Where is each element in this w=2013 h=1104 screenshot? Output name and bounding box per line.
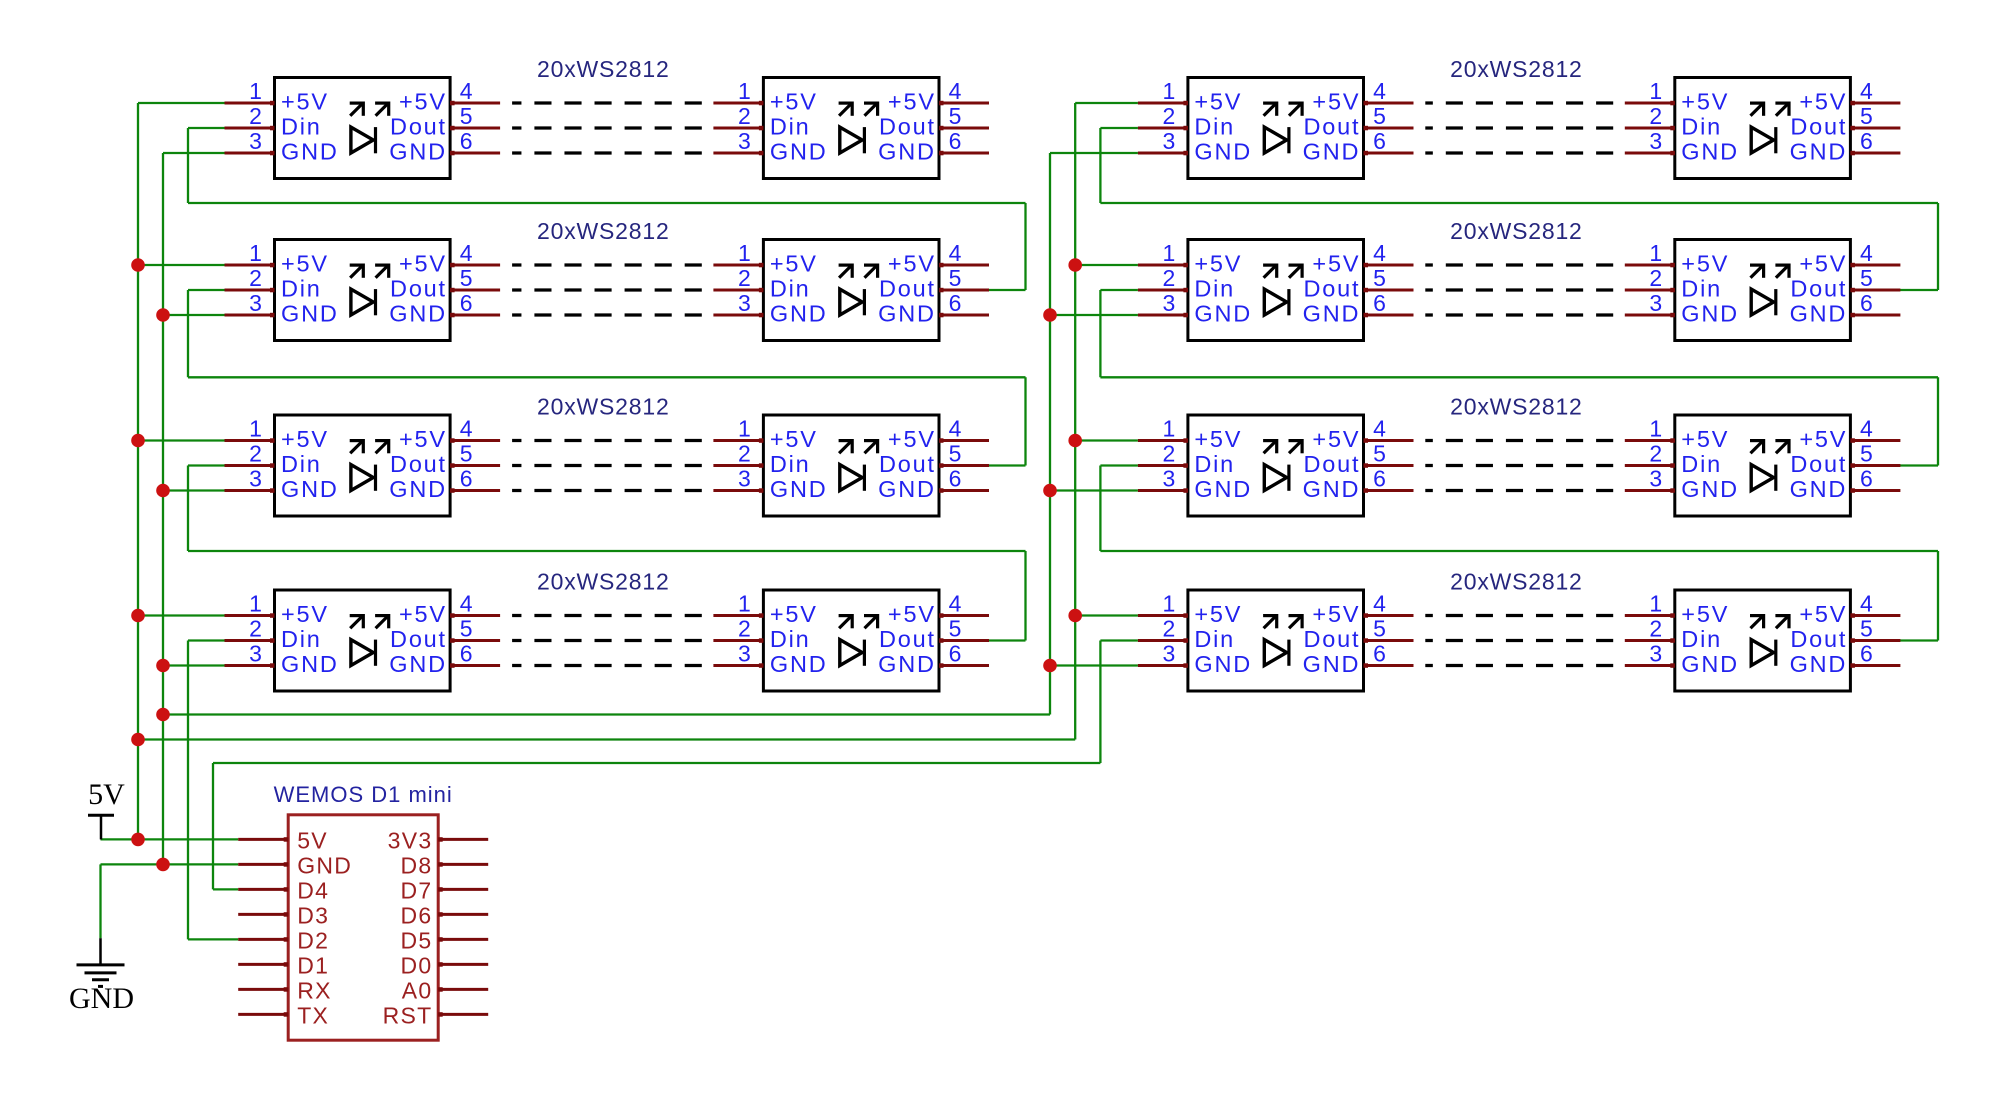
wire +5V feed to left row1 pin1: [138, 102, 225, 104]
svg-text:+5V: +5V: [1312, 426, 1360, 452]
svg-text:3: 3: [1163, 641, 1176, 667]
wire +5V feed to right row2 pin1: [1075, 264, 1138, 266]
svg-text:3: 3: [738, 466, 751, 492]
svg-text:4: 4: [1860, 240, 1873, 266]
LED module L1A diode symbol: [350, 102, 390, 154]
svg-text:Din: Din: [1194, 276, 1235, 302]
svg-text:GND: GND: [1681, 651, 1739, 677]
svg-text:5: 5: [1373, 441, 1386, 467]
LED module R2A pin numbers 1-3: [1163, 240, 1176, 316]
LED module L3B diode symbol: [839, 439, 879, 491]
LED module R3B pins 1-3 stubs: [1625, 438, 1675, 493]
WEMOS right pin stubs: [438, 837, 488, 1017]
svg-text:GND: GND: [770, 139, 828, 165]
wire Din feed to right row3 pin2: [1100, 464, 1138, 466]
LED module R2A pin numbers 4-6: [1373, 240, 1386, 316]
wire GND feed to left row4 pin3: [163, 664, 225, 666]
LED module R1B pins 1-3 stubs: [1625, 101, 1675, 156]
wire right S-link horizontal row1: [1100, 202, 1938, 204]
dashed LED-strip continuation right row1: [1425, 103, 1613, 153]
svg-text:3: 3: [1163, 128, 1176, 154]
svg-text:6: 6: [1860, 641, 1873, 667]
svg-text:4: 4: [949, 416, 962, 442]
LED module R3A pin numbers 4-6: [1373, 416, 1386, 492]
LED module R2B pins 1-3 stubs: [1625, 263, 1675, 318]
LED module L2A pins 4-6 stubs: [450, 263, 500, 318]
LED module L3A diode symbol: [350, 439, 390, 491]
svg-text:5: 5: [1860, 616, 1873, 642]
svg-text:GND: GND: [878, 139, 936, 165]
svg-text:GND: GND: [1790, 651, 1848, 677]
svg-text:5: 5: [460, 265, 473, 291]
svg-text:Din: Din: [770, 276, 811, 302]
svg-text:4: 4: [1373, 240, 1386, 266]
LED module R4A pin numbers 4-6: [1373, 591, 1386, 667]
LED module R2A pins 4-6 stubs: [1364, 263, 1414, 318]
LED module R4B pin numbers 4-6: [1860, 591, 1873, 667]
svg-text:+5V: +5V: [281, 426, 329, 452]
LED module R1A pins 4-6 stubs: [1364, 101, 1414, 156]
svg-text:GND: GND: [1303, 651, 1361, 677]
LED module L4B body: [763, 590, 939, 691]
LED module L1A pin numbers 1-3: [249, 78, 262, 154]
svg-text:5: 5: [949, 616, 962, 642]
wire left S-link horizontal row1: [188, 202, 1026, 204]
svg-text:A0: A0: [402, 977, 433, 1003]
LED module L3A pins 4-6 stubs: [450, 438, 500, 493]
LED module R1B pins 4-6 stubs: [1850, 101, 1900, 156]
WEMOS left pin names: [297, 827, 352, 1028]
LED module L3B pin numbers 4-6: [949, 416, 962, 492]
LED module R4B pin numbers 1-3: [1649, 591, 1662, 667]
wire GND feed to left row1 pin3: [163, 152, 225, 154]
svg-text:Dout: Dout: [1303, 276, 1360, 302]
svg-text:3V3: 3V3: [388, 827, 433, 853]
svg-text:1: 1: [249, 78, 262, 104]
svg-text:+5V: +5V: [770, 89, 818, 115]
wire left S-link vertical to row2 Dout: [1024, 203, 1026, 290]
wire right row1 Din vertical: [1099, 128, 1101, 203]
svg-text:1: 1: [249, 240, 262, 266]
LED module R3B pins 4-6 stubs: [1850, 438, 1900, 493]
svg-text:+5V: +5V: [1194, 426, 1242, 452]
LED module R3B diode symbol: [1750, 439, 1790, 491]
LED module L2A diode symbol: [350, 264, 390, 316]
LED module R1A pins 1-3 stubs: [1138, 101, 1188, 156]
svg-text:GND: GND: [770, 476, 828, 502]
svg-text:20xWS2812: 20xWS2812: [1450, 394, 1583, 420]
svg-text:Din: Din: [281, 276, 322, 302]
svg-text:GND: GND: [770, 301, 828, 327]
svg-text:+5V: +5V: [1799, 251, 1847, 277]
svg-text:5: 5: [460, 441, 473, 467]
LED module R1A pin numbers 4-6: [1373, 78, 1386, 154]
WEMOS left pin stubs: [238, 837, 288, 1017]
wire right S-link vertical to row2 Dout: [1937, 203, 1939, 290]
LED module R3A body: [1188, 415, 1364, 516]
svg-text:20xWS2812: 20xWS2812: [537, 394, 670, 420]
svg-text:+5V: +5V: [770, 426, 818, 452]
svg-text:GND: GND: [281, 476, 339, 502]
LED module R4B body: [1675, 590, 1851, 691]
wire GND supply vertical: [99, 864, 101, 938]
LED module L2A pins 1-3 stubs: [225, 263, 275, 318]
LED module L1A pins 4-6 stubs: [450, 101, 500, 156]
svg-text:+5V: +5V: [770, 251, 818, 277]
LED module L1B pins 4-6 stubs: [939, 101, 989, 156]
svg-text:6: 6: [949, 290, 962, 316]
svg-text:Din: Din: [281, 114, 322, 140]
LED module R3A diode symbol: [1263, 439, 1303, 491]
svg-text:+5V: +5V: [1194, 601, 1242, 627]
svg-text:2: 2: [738, 265, 751, 291]
LED module R3A pins 4-6 stubs: [1364, 438, 1414, 493]
svg-text:GND: GND: [1303, 139, 1361, 165]
svg-text:Din: Din: [1681, 114, 1722, 140]
wire right S-link vertical to row3 Dout: [1937, 377, 1939, 465]
LED module R1B pin numbers 4-6: [1860, 78, 1873, 154]
svg-text:Dout: Dout: [1790, 451, 1847, 477]
wire right row4 Dout connector: [1899, 639, 1938, 641]
svg-text:RST: RST: [383, 1002, 433, 1028]
svg-text:GND: GND: [1790, 476, 1848, 502]
dashed LED-strip continuation left row4: [512, 616, 702, 666]
svg-text:Dout: Dout: [879, 626, 936, 652]
svg-text:GND: GND: [1790, 301, 1848, 327]
svg-text:Din: Din: [1194, 114, 1235, 140]
LED module L3B body: [763, 415, 939, 516]
svg-text:5V: 5V: [88, 778, 125, 811]
svg-text:Dout: Dout: [1790, 114, 1847, 140]
svg-text:4: 4: [1373, 416, 1386, 442]
wire GND cross feed horizontal: [163, 713, 1050, 715]
svg-text:2: 2: [1649, 103, 1662, 129]
wire left row3 Dout connector: [988, 464, 1026, 466]
LED module R4B diode symbol: [1750, 614, 1790, 666]
LED module L4B diode symbol: [839, 614, 879, 666]
svg-text:Din: Din: [1194, 451, 1235, 477]
svg-text:4: 4: [460, 240, 473, 266]
svg-text:20xWS2812: 20xWS2812: [1450, 569, 1583, 595]
svg-text:3: 3: [738, 128, 751, 154]
svg-text:2: 2: [738, 441, 751, 467]
svg-text:Dout: Dout: [390, 451, 447, 477]
svg-text:1: 1: [1649, 78, 1662, 104]
LED module L4A pins 1-3 stubs: [225, 613, 275, 668]
LED module R2B pin numbers 4-6: [1860, 240, 1873, 316]
svg-text:6: 6: [460, 290, 473, 316]
svg-text:GND: GND: [878, 476, 936, 502]
junction dots +5V right rail: [1068, 258, 1082, 622]
LED module L2B pin numbers 1-3: [738, 240, 751, 316]
svg-text:5V: 5V: [297, 827, 328, 853]
LED module R2A pins 1-3 stubs: [1138, 263, 1188, 318]
LED module L1A body: [275, 78, 451, 179]
junction dots GND right rail: [1043, 308, 1057, 672]
svg-text:3: 3: [249, 290, 262, 316]
svg-text:GND: GND: [1681, 476, 1739, 502]
svg-text:GND: GND: [878, 651, 936, 677]
LED module L3A pins 1-3 stubs: [225, 438, 275, 493]
svg-text:+5V: +5V: [1312, 251, 1360, 277]
svg-text:2: 2: [249, 441, 262, 467]
svg-text:2: 2: [1163, 103, 1176, 129]
LED module L4A body: [275, 590, 451, 691]
svg-text:Dout: Dout: [390, 626, 447, 652]
svg-text:6: 6: [460, 128, 473, 154]
svg-text:+5V: +5V: [399, 601, 447, 627]
LED module L1A pins 1-3 stubs: [225, 101, 275, 156]
svg-text:5: 5: [1860, 103, 1873, 129]
LED module R2B diode symbol: [1750, 264, 1790, 316]
svg-text:Din: Din: [281, 451, 322, 477]
svg-text:+5V: +5V: [399, 89, 447, 115]
svg-text:4: 4: [1860, 78, 1873, 104]
LED module L2B pin numbers 4-6: [949, 240, 962, 316]
wire D4 vertical: [212, 763, 214, 889]
svg-text:6: 6: [1373, 641, 1386, 667]
LED module R2A body: [1188, 240, 1364, 341]
svg-text:Dout: Dout: [1303, 626, 1360, 652]
wire left S-link vertical to row4 Dout: [1024, 551, 1026, 641]
svg-text:4: 4: [460, 78, 473, 104]
svg-text:1: 1: [1163, 78, 1176, 104]
svg-text:+5V: +5V: [770, 601, 818, 627]
LED module L1A pin numbers 4-6: [460, 78, 473, 154]
svg-text:3: 3: [1649, 641, 1662, 667]
svg-text:Dout: Dout: [1790, 626, 1847, 652]
LED module L1B diode symbol: [839, 102, 879, 154]
svg-text:6: 6: [1860, 290, 1873, 316]
svg-text:6: 6: [1373, 128, 1386, 154]
LED module R4A pins 4-6 stubs: [1364, 613, 1414, 668]
dashed LED-strip continuation left row3: [512, 441, 702, 491]
svg-text:4: 4: [1373, 78, 1386, 104]
svg-text:D5: D5: [400, 927, 432, 953]
svg-text:+5V: +5V: [888, 251, 936, 277]
WEMOS right pin names: [383, 827, 433, 1028]
svg-text:2: 2: [249, 265, 262, 291]
svg-text:Din: Din: [281, 626, 322, 652]
svg-text:5: 5: [949, 265, 962, 291]
svg-text:+5V: +5V: [888, 426, 936, 452]
svg-text:5: 5: [949, 441, 962, 467]
svg-text:4: 4: [949, 240, 962, 266]
wire GND feed to right row4 pin3: [1050, 664, 1138, 666]
svg-text:1: 1: [1649, 416, 1662, 442]
LED module R4B pins 4-6 stubs: [1850, 613, 1900, 668]
svg-text:1: 1: [738, 416, 751, 442]
wire GND feed to left row2 pin3: [163, 314, 225, 316]
svg-text:Din: Din: [770, 626, 811, 652]
svg-text:4: 4: [1860, 416, 1873, 442]
svg-text:3: 3: [1163, 466, 1176, 492]
svg-text:+5V: +5V: [1799, 601, 1847, 627]
svg-text:2: 2: [738, 103, 751, 129]
svg-text:+5V: +5V: [281, 89, 329, 115]
wire Din feed to left row2 pin2: [188, 289, 225, 291]
LED module R1B diode symbol: [1750, 102, 1790, 154]
svg-text:Din: Din: [1681, 276, 1722, 302]
LED module R2B pin numbers 1-3: [1649, 240, 1662, 316]
svg-text:Din: Din: [1681, 626, 1722, 652]
LED module R3A pin numbers 1-3: [1163, 416, 1176, 492]
wire left row1 Din vertical: [187, 128, 189, 203]
LED module L4A pin numbers 4-6: [460, 591, 473, 667]
svg-text:4: 4: [1373, 591, 1386, 617]
svg-text:GND: GND: [281, 139, 339, 165]
svg-text:2: 2: [1649, 265, 1662, 291]
svg-text:20xWS2812: 20xWS2812: [537, 569, 670, 595]
svg-text:1: 1: [1163, 416, 1176, 442]
svg-text:GND: GND: [1790, 139, 1848, 165]
svg-text:D1: D1: [297, 952, 329, 978]
svg-text:+5V: +5V: [399, 251, 447, 277]
svg-text:5: 5: [460, 103, 473, 129]
svg-text:5: 5: [1373, 616, 1386, 642]
wire Din feed to right row2 pin2: [1100, 289, 1138, 291]
svg-text:+5V: +5V: [1799, 89, 1847, 115]
svg-text:+5V: +5V: [1312, 601, 1360, 627]
LED module R3B pin numbers 1-3: [1649, 416, 1662, 492]
svg-text:20xWS2812: 20xWS2812: [537, 56, 670, 82]
wire right S-link horizontal row3: [1100, 550, 1938, 552]
svg-text:GND: GND: [69, 982, 134, 1015]
svg-text:1: 1: [738, 240, 751, 266]
junction dots +5V left rail: [131, 258, 145, 846]
svg-text:RX: RX: [297, 977, 332, 1003]
wire D4 horizontal into pin: [213, 888, 238, 890]
svg-text:2: 2: [738, 616, 751, 642]
LED module L2A pin numbers 1-3: [249, 240, 262, 316]
svg-text:+5V: +5V: [1681, 251, 1729, 277]
wire +5V feed to left row4 pin1: [138, 614, 225, 616]
wire right row3 Dout connector: [1899, 464, 1938, 466]
dashed LED-strip continuation right row4: [1425, 616, 1613, 666]
svg-text:5: 5: [1860, 265, 1873, 291]
svg-text:5: 5: [460, 616, 473, 642]
svg-text:Dout: Dout: [879, 276, 936, 302]
svg-text:6: 6: [1373, 466, 1386, 492]
svg-text:GND: GND: [1681, 139, 1739, 165]
wire right row2 Din vertical: [1099, 290, 1101, 377]
svg-text:GND: GND: [1194, 651, 1252, 677]
svg-text:2: 2: [1649, 616, 1662, 642]
svg-text:GND: GND: [389, 139, 447, 165]
LED module L4B pin numbers 4-6: [949, 591, 962, 667]
svg-text:1: 1: [1163, 240, 1176, 266]
svg-text:WEMOS D1 mini: WEMOS D1 mini: [274, 782, 453, 807]
svg-text:GND: GND: [1303, 301, 1361, 327]
LED module L2A pin numbers 4-6: [460, 240, 473, 316]
wire D4 to right column Din horizontal: [213, 762, 1100, 764]
svg-text:D4: D4: [297, 877, 329, 903]
svg-text:20xWS2812: 20xWS2812: [1450, 56, 1583, 82]
svg-text:D6: D6: [400, 902, 432, 928]
svg-text:+5V: +5V: [281, 251, 329, 277]
svg-text:3: 3: [738, 290, 751, 316]
svg-text:3: 3: [738, 641, 751, 667]
power symbol GND: [69, 938, 134, 1015]
svg-text:GND: GND: [281, 651, 339, 677]
svg-text:GND: GND: [1681, 301, 1739, 327]
LED module R1B body: [1675, 78, 1851, 179]
dashed LED-strip continuation left row1: [512, 103, 702, 153]
svg-text:+5V: +5V: [888, 601, 936, 627]
LED module R4A body: [1188, 590, 1364, 691]
WEMOS D1 mini body: [288, 815, 438, 1040]
svg-text:1: 1: [249, 591, 262, 617]
svg-text:D2: D2: [297, 927, 329, 953]
svg-text:D8: D8: [400, 852, 432, 878]
wire +5V feed to left row2 pin1: [138, 264, 225, 266]
svg-text:+5V: +5V: [399, 426, 447, 452]
wire left row4 Din vertical down to D2: [187, 641, 189, 940]
svg-text:Dout: Dout: [390, 276, 447, 302]
LED module L3B pins 1-3 stubs: [713, 438, 763, 493]
svg-text:2: 2: [1163, 265, 1176, 291]
svg-text:Din: Din: [770, 451, 811, 477]
svg-text:+5V: +5V: [1312, 89, 1360, 115]
svg-text:1: 1: [738, 591, 751, 617]
LED module L2A body: [275, 240, 451, 341]
wire GND feed to right row1 pin3: [1050, 152, 1138, 154]
svg-text:3: 3: [1163, 290, 1176, 316]
wire Din feed to left row1 pin2: [188, 127, 225, 129]
svg-text:+5V: +5V: [1194, 89, 1242, 115]
svg-text:6: 6: [949, 128, 962, 154]
svg-text:1: 1: [1649, 591, 1662, 617]
wire left S-link vertical to row3 Dout: [1024, 377, 1026, 465]
wire left row4 Dout connector: [988, 639, 1026, 641]
svg-text:+5V: +5V: [281, 601, 329, 627]
wire right row2 Dout connector: [1899, 289, 1938, 291]
svg-text:4: 4: [460, 591, 473, 617]
wire GND supply horizontal: [101, 863, 239, 865]
LED module L2B pins 1-3 stubs: [713, 263, 763, 318]
svg-text:Dout: Dout: [1303, 451, 1360, 477]
LED module R4A diode symbol: [1263, 614, 1303, 666]
LED module R4B pins 1-3 stubs: [1625, 613, 1675, 668]
svg-text:Din: Din: [770, 114, 811, 140]
svg-text:6: 6: [949, 466, 962, 492]
junction dots GND left rail: [156, 308, 170, 871]
LED module L4B pin numbers 1-3: [738, 591, 751, 667]
svg-text:TX: TX: [297, 1002, 329, 1028]
svg-text:6: 6: [1373, 290, 1386, 316]
svg-text:GND: GND: [770, 651, 828, 677]
power symbol 5V: [88, 778, 125, 839]
wire GND feed to left row3 pin3: [163, 489, 225, 491]
svg-text:5: 5: [1373, 103, 1386, 129]
svg-text:6: 6: [1860, 128, 1873, 154]
wire GND left rail vertical: [162, 153, 164, 864]
svg-text:GND: GND: [1194, 301, 1252, 327]
svg-text:3: 3: [1649, 290, 1662, 316]
wire Din feed to right row1 pin2: [1100, 127, 1138, 129]
svg-text:1: 1: [738, 78, 751, 104]
svg-text:2: 2: [1163, 616, 1176, 642]
svg-text:4: 4: [949, 591, 962, 617]
svg-text:6: 6: [1860, 466, 1873, 492]
wire +5V feed to right row4 pin1: [1075, 614, 1138, 616]
svg-text:1: 1: [1649, 240, 1662, 266]
wire +5V feed to right row1 pin1: [1075, 102, 1138, 104]
dashed LED-strip continuation right row2: [1425, 265, 1613, 315]
wire right S-link horizontal row2: [1100, 376, 1938, 378]
svg-text:1: 1: [249, 416, 262, 442]
wire +5V right rail vertical: [1074, 103, 1076, 740]
